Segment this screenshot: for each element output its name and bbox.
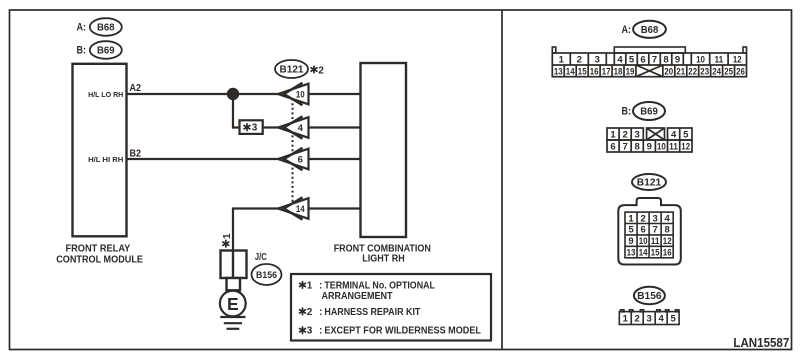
svg-text:4: 4 bbox=[298, 123, 304, 134]
legend note 2 bbox=[300, 308, 306, 315]
svg-text:7: 7 bbox=[622, 142, 627, 153]
svg-text:E: E bbox=[227, 294, 239, 314]
svg-text:B68: B68 bbox=[641, 24, 659, 36]
svg-text:5: 5 bbox=[683, 130, 689, 141]
svg-text:5: 5 bbox=[670, 314, 676, 325]
svg-text:21: 21 bbox=[676, 67, 685, 78]
svg-text:16: 16 bbox=[590, 67, 599, 78]
svg-text:3: 3 bbox=[647, 314, 652, 325]
svg-text:15: 15 bbox=[578, 67, 587, 78]
svg-text:4: 4 bbox=[665, 213, 671, 224]
B156 oval label bbox=[252, 264, 282, 285]
svg-text:8: 8 bbox=[663, 55, 668, 66]
svg-text:B68: B68 bbox=[97, 22, 115, 34]
svg-text:12: 12 bbox=[663, 236, 672, 247]
svg-text:1: 1 bbox=[628, 213, 634, 224]
svg-text:1: 1 bbox=[623, 314, 629, 325]
svg-text:A:: A: bbox=[622, 24, 632, 36]
svg-text:8: 8 bbox=[635, 142, 640, 153]
svg-text:22: 22 bbox=[688, 67, 697, 78]
ground E bbox=[220, 291, 246, 329]
legend note 3 bbox=[300, 327, 306, 334]
svg-text:5: 5 bbox=[629, 55, 635, 66]
svg-text:19: 19 bbox=[626, 67, 635, 78]
label B121 (panel) bbox=[632, 174, 666, 190]
front relay control module box bbox=[73, 64, 127, 237]
connector arrow pin 4 bbox=[278, 116, 309, 138]
svg-text:CONTROL MODULE: CONTROL MODULE bbox=[56, 255, 143, 266]
svg-text:11: 11 bbox=[651, 236, 660, 247]
svg-text:24: 24 bbox=[712, 67, 721, 78]
svg-text:10: 10 bbox=[696, 55, 705, 66]
svg-text:3: 3 bbox=[252, 123, 258, 134]
svg-text:9: 9 bbox=[647, 142, 652, 153]
svg-text:2: 2 bbox=[307, 307, 313, 318]
connector arrow pin 6 bbox=[278, 148, 309, 170]
svg-text:3: 3 bbox=[595, 55, 600, 66]
svg-text:17: 17 bbox=[602, 67, 611, 78]
connector B156 pinout bbox=[619, 310, 679, 325]
svg-text:TERMINAL No. OPTIONAL: TERMINAL No. OPTIONAL bbox=[324, 281, 435, 292]
svg-text:2: 2 bbox=[318, 65, 324, 76]
svg-text:B121: B121 bbox=[280, 65, 304, 76]
svg-text:B156: B156 bbox=[637, 290, 662, 302]
svg-text:11: 11 bbox=[669, 142, 678, 153]
wire B2 bbox=[127, 158, 280, 160]
svg-text:14: 14 bbox=[566, 67, 575, 78]
svg-text:B121: B121 bbox=[637, 177, 662, 189]
svg-text:5: 5 bbox=[628, 225, 634, 236]
label B: B69 bbox=[77, 41, 122, 59]
svg-text:B69: B69 bbox=[97, 45, 115, 57]
wire arrow4 to light box bbox=[309, 126, 361, 128]
svg-text:14: 14 bbox=[296, 204, 305, 215]
label B156 (panel) bbox=[634, 287, 665, 304]
svg-text:HARNESS REPAIR KIT: HARNESS REPAIR KIT bbox=[324, 307, 420, 318]
wire A2 bbox=[127, 93, 280, 95]
J/C junction connector bbox=[221, 251, 247, 291]
svg-text:3: 3 bbox=[652, 213, 657, 224]
*2 note bbox=[311, 66, 317, 73]
*3 option box bbox=[240, 120, 263, 134]
svg-text:15: 15 bbox=[651, 248, 660, 259]
svg-text:1: 1 bbox=[307, 281, 313, 292]
svg-text:12: 12 bbox=[681, 142, 690, 153]
svg-text:3: 3 bbox=[635, 130, 640, 141]
svg-text:9: 9 bbox=[675, 55, 680, 66]
svg-text:2: 2 bbox=[577, 55, 582, 66]
svg-text:20: 20 bbox=[664, 67, 673, 78]
svg-text:13: 13 bbox=[554, 67, 563, 78]
svg-text:6: 6 bbox=[298, 155, 303, 166]
*1 note rotated bbox=[223, 240, 229, 247]
svg-text:B2: B2 bbox=[130, 148, 142, 160]
legend note 1 bbox=[300, 282, 306, 289]
svg-text:10: 10 bbox=[639, 236, 648, 247]
B121 oval label bbox=[275, 60, 308, 78]
svg-text:6: 6 bbox=[610, 142, 615, 153]
front combination light box bbox=[361, 63, 407, 237]
label A: B68 bbox=[77, 18, 122, 36]
svg-text:B69: B69 bbox=[640, 106, 658, 118]
svg-text:ARRANGEMENT: ARRANGEMENT bbox=[322, 291, 393, 302]
connector arrow pin 10 bbox=[278, 83, 309, 105]
wire *3 to arrow 4 bbox=[263, 126, 279, 128]
wire arrow10 to light box bbox=[309, 93, 361, 95]
connector B121 pinout bbox=[618, 198, 681, 265]
svg-text:1: 1 bbox=[559, 55, 565, 66]
svg-text:2: 2 bbox=[640, 213, 645, 224]
wire arrow14 to light box bbox=[309, 207, 361, 209]
svg-text:2: 2 bbox=[635, 314, 640, 325]
svg-text:3: 3 bbox=[307, 326, 313, 337]
svg-text:4: 4 bbox=[671, 130, 677, 141]
svg-text:9: 9 bbox=[628, 236, 633, 247]
svg-text:13: 13 bbox=[627, 248, 636, 259]
connector dashed link line B121 bbox=[292, 94, 294, 209]
svg-text:A:: A: bbox=[77, 22, 87, 34]
connector B68 pinout bbox=[552, 47, 746, 53]
svg-text:6: 6 bbox=[640, 55, 645, 66]
divider line bbox=[501, 10, 503, 350]
svg-text:A2: A2 bbox=[130, 82, 142, 94]
svg-text:H/L LO RH: H/L LO RH bbox=[88, 90, 123, 99]
svg-text::: : bbox=[319, 326, 322, 337]
node junction bbox=[227, 88, 239, 100]
svg-text:FRONT RELAY: FRONT RELAY bbox=[66, 244, 131, 255]
svg-text:8: 8 bbox=[665, 225, 670, 236]
connector B69 pinout bbox=[607, 128, 692, 153]
svg-text:6: 6 bbox=[640, 225, 645, 236]
svg-text::: : bbox=[319, 307, 322, 318]
svg-text:LIGHT RH: LIGHT RH bbox=[362, 254, 404, 265]
svg-text:25: 25 bbox=[724, 67, 733, 78]
svg-text:26: 26 bbox=[736, 67, 745, 78]
svg-text:18: 18 bbox=[614, 67, 623, 78]
connector arrow pin 14 bbox=[278, 197, 309, 219]
svg-text:4: 4 bbox=[659, 314, 665, 325]
svg-text:10: 10 bbox=[296, 90, 305, 101]
wire junction down to *3 bbox=[233, 94, 240, 128]
svg-text:H/L HI RH: H/L HI RH bbox=[88, 155, 123, 164]
svg-text:16: 16 bbox=[663, 248, 672, 259]
wire 14 to J/C bbox=[233, 209, 279, 251]
svg-text:J/C: J/C bbox=[255, 252, 267, 263]
svg-text:12: 12 bbox=[733, 55, 742, 66]
svg-text::: : bbox=[319, 281, 322, 292]
svg-text:1: 1 bbox=[222, 233, 233, 239]
legend box bbox=[291, 274, 491, 341]
svg-text:7: 7 bbox=[652, 55, 657, 66]
svg-text:14: 14 bbox=[639, 248, 648, 259]
svg-text:4: 4 bbox=[617, 55, 623, 66]
svg-text:EXCEPT FOR WILDERNESS MODEL: EXCEPT FOR WILDERNESS MODEL bbox=[324, 326, 481, 337]
svg-text:B:: B: bbox=[77, 45, 87, 57]
svg-text:B:: B: bbox=[622, 106, 632, 118]
svg-text:1: 1 bbox=[610, 130, 616, 141]
svg-text:B156: B156 bbox=[256, 270, 277, 281]
svg-text:LAN15587: LAN15587 bbox=[733, 335, 789, 350]
svg-text:7: 7 bbox=[652, 225, 657, 236]
svg-text:10: 10 bbox=[657, 142, 666, 153]
svg-text:23: 23 bbox=[700, 67, 709, 78]
svg-text:2: 2 bbox=[622, 130, 627, 141]
wire arrow6 to light box bbox=[309, 158, 361, 160]
svg-text:11: 11 bbox=[715, 55, 724, 66]
